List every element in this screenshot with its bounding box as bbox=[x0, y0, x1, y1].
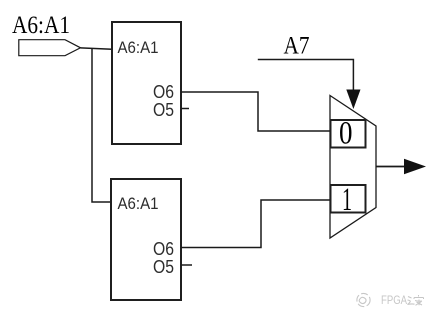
arrowhead A7 into mux bbox=[346, 90, 360, 110]
watermark text FPGA之家 bbox=[381, 295, 407, 307]
svg-text:FPGA: FPGA bbox=[381, 295, 407, 307]
svg-text:A7: A7 bbox=[284, 33, 310, 60]
svg-text:A6:A1: A6:A1 bbox=[118, 194, 159, 213]
U2 O5 stub bbox=[181, 264, 192, 266]
watermark glyph 之 bbox=[408, 297, 415, 305]
mux select box 0 bbox=[331, 120, 366, 148]
svg-text:O6: O6 bbox=[153, 239, 174, 259]
U1 O5 stub bbox=[181, 108, 189, 110]
svg-text:A6:A1: A6:A1 bbox=[118, 38, 159, 57]
output arrowhead bbox=[404, 159, 426, 175]
watermark logo circle bbox=[357, 293, 370, 306]
wire port to upper LUT bbox=[81, 48, 113, 49]
svg-text:O6: O6 bbox=[153, 82, 174, 102]
input port symbol A6:A1 bbox=[19, 40, 81, 56]
svg-text:O5: O5 bbox=[153, 100, 174, 120]
mux select box 1 bbox=[331, 185, 366, 213]
svg-text:O5: O5 bbox=[153, 257, 174, 277]
watermark glyph 家 bbox=[414, 295, 424, 305]
LUT U1 (upper box) bbox=[112, 22, 181, 144]
wire branch down to lower LUT bbox=[92, 49, 111, 202]
LUT U2 (lower box) bbox=[111, 179, 181, 300]
svg-text:0: 0 bbox=[339, 116, 353, 152]
svg-text:1: 1 bbox=[342, 182, 352, 218]
mux U3 (trapezoid) bbox=[330, 96, 376, 239]
wire U2.O6 to mux input 1 bbox=[181, 200, 331, 248]
wire A7 select bbox=[258, 60, 354, 91]
output wire bbox=[376, 166, 406, 168]
wire U1.O6 to mux input 0 bbox=[181, 92, 331, 131]
svg-text:A6:A1: A6:A1 bbox=[12, 12, 70, 39]
